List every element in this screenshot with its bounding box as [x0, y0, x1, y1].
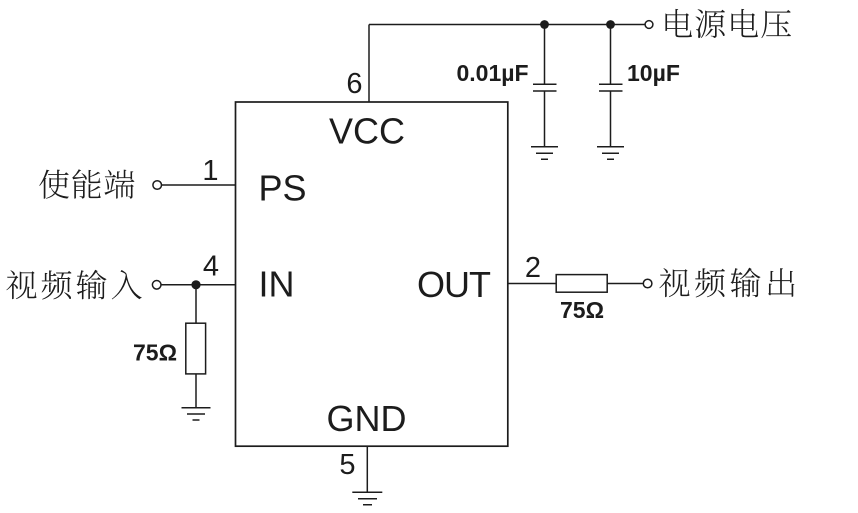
wire: R2 to output terminal	[607, 283, 643, 285]
terminal circle: video output	[643, 279, 652, 288]
svg-text:PS: PS	[259, 167, 307, 208]
ground for pin 5	[352, 492, 382, 505]
svg-text:10µF: 10µF	[627, 60, 680, 86]
junction dot at C2 tap	[606, 20, 615, 29]
ground for R1	[182, 408, 211, 420]
svg-text:5: 5	[339, 449, 355, 481]
capacitor C2 stem top	[610, 25, 612, 84]
capacitor C1 stem top	[544, 25, 546, 84]
capacitor C1 plates	[533, 84, 557, 91]
resistor R2 body	[556, 275, 607, 293]
svg-text:2: 2	[525, 252, 541, 284]
terminal circle: supply voltage	[645, 21, 653, 29]
svg-text:VCC: VCC	[329, 111, 405, 152]
junction dot at C1 tap	[540, 20, 549, 29]
svg-text:OUT: OUT	[417, 264, 491, 305]
IC U1 body	[236, 102, 508, 446]
ground for C2	[597, 147, 624, 160]
svg-text:0.01µF: 0.01µF	[457, 60, 529, 86]
net label: supply voltage (Chinese)	[665, 9, 791, 38]
pin 4 wire (IN)	[161, 284, 235, 286]
svg-text:IN: IN	[259, 263, 295, 304]
svg-text:GND: GND	[327, 398, 407, 439]
capacitor C2 plates	[599, 84, 623, 91]
pin 5 wire (GND)	[366, 446, 368, 492]
wire: VCC rail to supply terminal	[369, 24, 645, 26]
svg-text:75Ω: 75Ω	[133, 340, 177, 366]
terminal circle: enable input	[153, 181, 162, 190]
svg-text:4: 4	[203, 251, 219, 283]
svg-text:75Ω: 75Ω	[560, 297, 604, 323]
wire: IN node down to R1	[195, 285, 197, 323]
pin 6 wire (VCC)	[368, 25, 370, 103]
svg-text:1: 1	[202, 155, 218, 187]
net label: video input (Chinese)	[6, 270, 141, 300]
terminal circle: video input	[152, 281, 161, 290]
svg-text:6: 6	[346, 68, 362, 100]
junction dot at IN node	[191, 280, 200, 289]
ground for C1	[531, 147, 558, 160]
capacitor C2 stem bottom	[610, 91, 612, 146]
net label: video output (Chinese)	[659, 268, 794, 298]
net label: enable terminal (Chinese)	[39, 169, 134, 199]
pin 2 wire (OUT)	[508, 283, 556, 285]
pin 1 wire (PS)	[162, 184, 236, 186]
capacitor C1 stem bottom	[544, 91, 546, 146]
wire: R1 to ground	[195, 374, 197, 407]
resistor R1 body	[186, 323, 206, 374]
